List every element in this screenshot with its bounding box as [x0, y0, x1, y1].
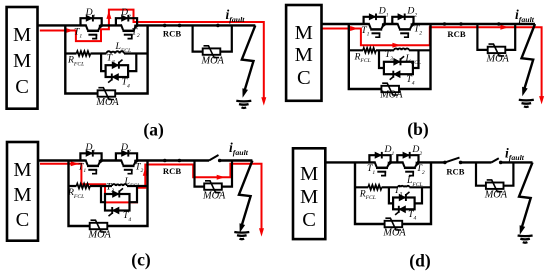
wire FCL outer loop — [69, 161, 148, 227]
ground — [234, 231, 249, 234]
wire D2 bypass loop — [397, 155, 418, 162]
svg-text:MOA: MOA — [484, 190, 508, 201]
varistor MOA (FCL arrester) — [381, 86, 399, 92]
IGBT T2 — [402, 161, 404, 167]
wire main dc bus — [325, 161, 533, 163]
diode D2 — [122, 15, 128, 21]
wire D2 bypass loop — [116, 153, 137, 160]
svg-text:M: M — [13, 184, 31, 206]
wire thyristor-block stubs — [379, 50, 419, 68]
arrowhead current direction — [259, 228, 264, 236]
svg-text:RCB: RCB — [163, 166, 181, 176]
svg-text:MOA: MOA — [95, 97, 119, 108]
MMC converter U-b — [286, 5, 321, 101]
wire thyristor loop — [393, 198, 415, 210]
svg-text:(c): (c) — [131, 250, 151, 270]
wire MOA branch — [477, 24, 515, 50]
svg-text:RCB: RCB — [447, 29, 465, 39]
diode D2 — [398, 14, 404, 20]
MMC converter U-a — [7, 7, 38, 109]
wire MOA branch — [476, 162, 513, 185]
svg-text:M: M — [295, 44, 313, 66]
svg-text:M: M — [13, 50, 31, 72]
resistor R_FCL — [363, 48, 376, 53]
wire FCL outer loop — [65, 25, 147, 93]
wire thyristor-block stubs — [389, 187, 422, 203]
arrowhead current direction — [66, 28, 74, 33]
thyristor T4 — [394, 71, 400, 78]
ground — [236, 100, 251, 103]
wire fault-current path (red) — [40, 10, 264, 102]
svg-text:MOA: MOA — [486, 54, 510, 65]
svg-text:MOA: MOA — [88, 230, 112, 241]
svg-text:C: C — [297, 67, 311, 89]
wire FCL outer loop — [355, 162, 431, 224]
thyristor T3 — [399, 194, 405, 201]
IGBT T1 — [369, 23, 371, 29]
inductor L_FCL — [398, 186, 410, 187]
svg-text:(a): (a) — [143, 120, 164, 140]
wire D1 bypass loop — [80, 153, 101, 160]
svg-text:MOA: MOA — [201, 55, 225, 66]
wire D2 bypass loop — [116, 18, 137, 25]
svg-text:MOA: MOA — [202, 190, 226, 201]
svg-text:C: C — [15, 76, 29, 98]
thyristor T4 — [113, 207, 120, 214]
arrowhead current direction — [106, 11, 111, 19]
wire D2 bypass loop — [392, 17, 413, 24]
wire D1 bypass loop — [369, 155, 390, 162]
svg-text:RCB: RCB — [446, 166, 464, 176]
resistor R_FCL — [77, 184, 91, 189]
fault lightning bolt — [519, 162, 533, 228]
node junction — [443, 22, 447, 26]
diode D1 — [369, 14, 375, 20]
wire D1 bypass loop — [364, 17, 385, 24]
thyristor T3 — [394, 58, 400, 65]
inductor L_FCL — [112, 184, 127, 186]
breaker contact (open) — [443, 161, 447, 165]
varistor MOA (FCL arrester) — [98, 90, 116, 96]
wire thyristor-block stubs — [101, 54, 136, 72]
svg-text:(b): (b) — [407, 119, 429, 139]
wire R-L row — [349, 49, 431, 51]
inductor L_FCL — [394, 48, 409, 50]
IGBT T1 — [374, 161, 376, 167]
svg-text:M: M — [13, 24, 31, 46]
wire thyristor-block stubs — [101, 186, 137, 202]
wire thyristor loop — [105, 194, 130, 211]
svg-text:MOA: MOA — [382, 228, 406, 239]
wire R-L row — [69, 185, 148, 187]
arrowhead current direction — [71, 161, 79, 166]
diode D1 — [86, 150, 92, 156]
resistor R_FCL — [368, 185, 381, 190]
thyristor T4 — [399, 206, 405, 213]
svg-text:M: M — [295, 22, 313, 44]
fault lightning bolt — [239, 161, 253, 227]
arrowhead current direction — [261, 97, 266, 105]
wire MOA branch — [193, 25, 232, 51]
svg-text:M: M — [300, 186, 318, 208]
arrowhead current direction — [217, 175, 225, 180]
wire R-L row — [65, 52, 147, 54]
svg-text:RCB: RCB — [163, 29, 181, 39]
inductor L_FCL — [107, 51, 125, 53]
svg-text:C: C — [16, 209, 30, 231]
varistor MOA (breaker arrester) — [203, 48, 221, 54]
diode D2 — [122, 150, 128, 156]
wire thyristor loop — [384, 62, 413, 74]
node junction — [459, 22, 463, 26]
node junction — [178, 24, 182, 28]
wire main dc bus — [322, 23, 536, 25]
node junction — [216, 24, 220, 28]
arrowhead current direction — [392, 43, 400, 48]
diode D1 — [86, 15, 92, 21]
node junction — [178, 159, 182, 163]
arrowhead current direction — [350, 26, 358, 31]
breaker contact (open) — [209, 155, 219, 161]
svg-text:M: M — [13, 159, 31, 181]
breaker contact (open) — [492, 158, 499, 162]
varistor MOA (breaker arrester) — [488, 47, 506, 53]
diode D2 — [403, 152, 409, 158]
ground — [518, 234, 533, 237]
IGBT T2 — [121, 160, 123, 166]
IGBT T2 — [121, 24, 123, 30]
varistor MOA (FCL arrester) — [90, 223, 108, 229]
MMC converter U-c — [7, 142, 38, 241]
IGBT T1 — [86, 24, 88, 30]
IGBT T1 — [85, 160, 87, 166]
MMC converter U-d — [293, 148, 325, 239]
fault lightning bolt — [242, 25, 256, 91]
ground — [519, 99, 534, 102]
wire R-L row — [355, 186, 431, 188]
thyristor T4 — [112, 74, 118, 81]
IGBT T2 — [397, 23, 399, 29]
svg-text:(d): (d) — [409, 251, 431, 271]
varistor MOA (breaker arrester) — [486, 183, 504, 189]
varistor MOA (FCL arrester) — [385, 221, 403, 227]
arrowhead current direction — [143, 168, 148, 176]
node junction — [163, 24, 167, 28]
svg-text:MOA: MOA — [379, 89, 403, 100]
svg-text:C: C — [302, 209, 316, 231]
svg-text:M: M — [300, 163, 318, 185]
diode D1 — [375, 152, 381, 158]
node junction — [497, 22, 501, 26]
arrowhead current direction — [500, 25, 508, 30]
wire D1 bypass loop — [81, 18, 102, 25]
wire MOA branch — [195, 161, 233, 187]
resistor R_FCL — [77, 51, 91, 56]
wire FCL outer loop — [349, 24, 431, 89]
arrowhead current direction — [539, 96, 544, 104]
wire fault-current path (red) — [322, 27, 542, 100]
node junction — [163, 159, 167, 163]
varistor MOA (breaker arrester) — [204, 183, 222, 189]
thyristor T3 — [113, 191, 120, 198]
wire thyristor loop — [106, 65, 129, 77]
wire fault-current path (red) — [40, 164, 262, 233]
thyristor T3 — [112, 62, 118, 69]
fault lightning bolt — [522, 24, 536, 90]
wire main dc bus — [38, 159, 252, 161]
wire main dc bus — [38, 24, 256, 26]
